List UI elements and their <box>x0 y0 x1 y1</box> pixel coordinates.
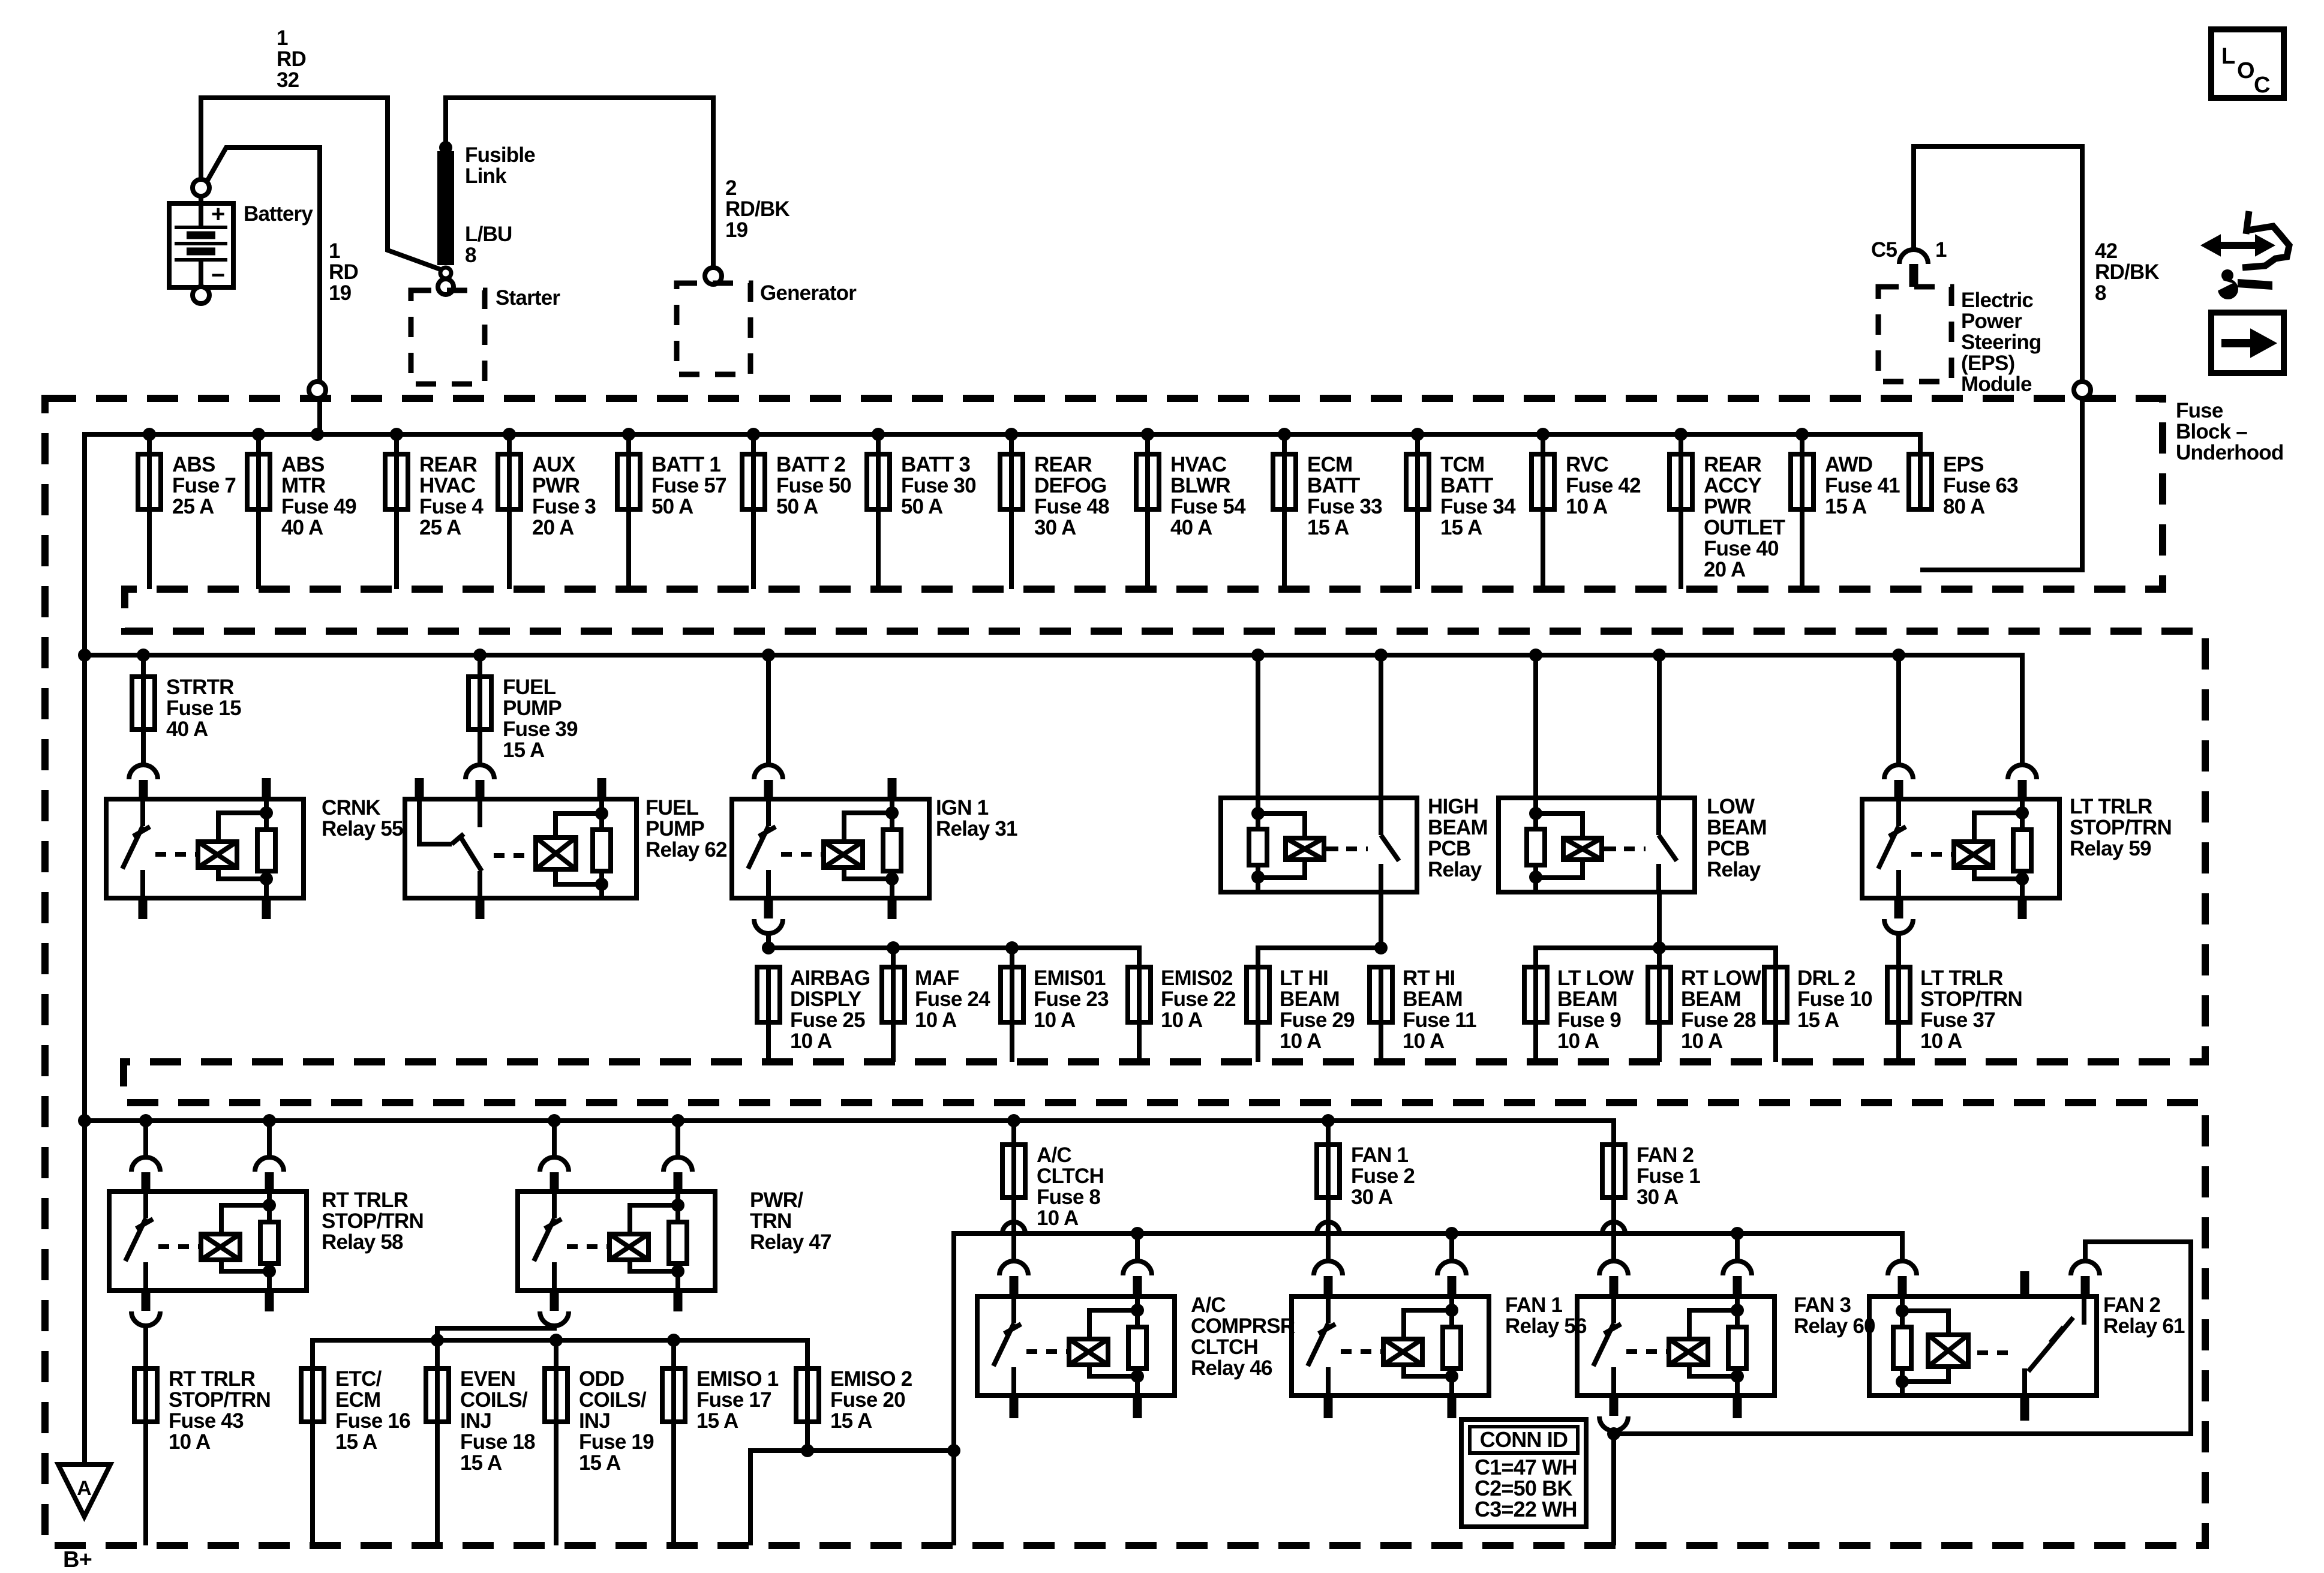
svg-text:RD/BK: RD/BK <box>2095 260 2159 284</box>
svg-text:Fuse 37: Fuse 37 <box>1920 1008 1995 1032</box>
svg-text:C3=22 WH: C3=22 WH <box>1475 1497 1577 1521</box>
svg-text:COILS/: COILS/ <box>460 1388 528 1412</box>
svg-text:Fuse 23: Fuse 23 <box>1034 987 1109 1011</box>
svg-text:42: 42 <box>2095 239 2118 263</box>
svg-text:30 A: 30 A <box>1351 1185 1393 1209</box>
svg-text:40 A: 40 A <box>166 718 208 741</box>
svg-text:FUEL: FUEL <box>503 676 556 699</box>
wire IGN1 output feed bus <box>768 948 1139 967</box>
svg-text:FAN 3: FAN 3 <box>1794 1293 1851 1317</box>
svg-text:RD/BK: RD/BK <box>725 197 789 221</box>
svg-text:10 A: 10 A <box>1161 1008 1203 1032</box>
wire FAN2 fuse to relay 60 <box>1611 1197 1616 1261</box>
fuse EMISO 2 Fuse 20 <box>805 1368 810 1422</box>
svg-text:LT TRLR: LT TRLR <box>2070 795 2152 818</box>
svg-text:STOP/TRN: STOP/TRN <box>1920 987 2022 1011</box>
svg-text:10 A: 10 A <box>169 1430 211 1454</box>
svg-text:40 A: 40 A <box>281 516 323 539</box>
fuse EVEN COILS/ INJ Fuse 18 <box>435 1368 440 1422</box>
svg-text:Electric: Electric <box>1961 289 2033 312</box>
svg-text:25 A: 25 A <box>172 495 214 518</box>
svg-text:Fuse 3: Fuse 3 <box>532 495 596 518</box>
svg-text:RT LOW: RT LOW <box>1681 966 1761 990</box>
fuse ETC/ ECM Fuse 16 <box>310 1368 315 1422</box>
junction feed 1RD19 on row-1 bus <box>311 428 324 441</box>
crossover hops on coil bus <box>1002 1222 1025 1233</box>
svg-text:A/C: A/C <box>1191 1293 1226 1317</box>
junction on row-3 bus x=243 <box>139 1114 152 1127</box>
svg-text:Fuse 22: Fuse 22 <box>1161 987 1236 1011</box>
wire FAN1 fuse to relay 56 <box>1326 1197 1331 1261</box>
relay RT TRLR STOP/TRN Relay 58 <box>143 1121 148 1158</box>
svg-text:20 A: 20 A <box>532 516 574 539</box>
junction on row-3 bus x=924 <box>548 1114 561 1127</box>
svg-text:Fuse 43: Fuse 43 <box>169 1409 244 1433</box>
svg-text:15 A: 15 A <box>335 1430 377 1454</box>
svg-text:Fuse 9: Fuse 9 <box>1557 1008 1621 1032</box>
svg-text:Fuse 1: Fuse 1 <box>1637 1164 1700 1188</box>
junction on row-2 bus x=3165 <box>1892 649 1905 662</box>
starter component dashed box <box>411 290 485 384</box>
svg-text:BATT 1: BATT 1 <box>651 453 720 476</box>
svg-text:20 A: 20 A <box>1704 558 1746 581</box>
junction on row-2 bus x=1281 <box>762 649 775 662</box>
wire LOW BEAM output feed <box>1536 948 1776 967</box>
svg-text:Power: Power <box>1961 310 2022 333</box>
wire row-3 lower fuse bus <box>313 1340 807 1368</box>
svg-text:15 A: 15 A <box>696 1409 738 1433</box>
svg-text:Fuse 50: Fuse 50 <box>776 474 851 497</box>
svg-text:Fuse 20: Fuse 20 <box>830 1388 905 1412</box>
svg-text:Relay 46: Relay 46 <box>1191 1356 1272 1380</box>
wire coil bus to relay 60 <box>1735 1233 1740 1261</box>
LOC reference box <box>2211 29 2284 98</box>
svg-text:Generator: Generator <box>760 281 857 305</box>
svg-text:AUX: AUX <box>532 453 576 476</box>
svg-text:10 A: 10 A <box>1920 1029 1962 1053</box>
svg-text:Relay 58: Relay 58 <box>322 1230 403 1254</box>
svg-text:STOP/TRN: STOP/TRN <box>169 1388 271 1412</box>
svg-text:Relay 60: Relay 60 <box>1794 1314 1875 1338</box>
svg-text:40 A: 40 A <box>1170 516 1212 539</box>
wire relay 60 output to relay 61 switch feed <box>1614 1242 2191 1434</box>
svg-text:EMISO 2: EMISO 2 <box>830 1367 912 1391</box>
svg-text:PUMP: PUMP <box>503 697 562 720</box>
svg-text:RT HI: RT HI <box>1403 966 1455 990</box>
fuse ODD COILS/ INJ Fuse 19 <box>554 1368 559 1422</box>
fuse LT HI BEAM Fuse 29 <box>1256 967 1260 1022</box>
junction on row-2 bus x=2302 <box>1374 649 1388 662</box>
wire 1 RD 32 battery to starter <box>201 98 440 269</box>
svg-text:REAR: REAR <box>419 453 477 476</box>
svg-text:INJ: INJ <box>460 1409 491 1433</box>
relay FAN 1 Relay 56 <box>1314 1261 1343 1275</box>
svg-text:Fuse 2: Fuse 2 <box>1351 1164 1415 1188</box>
svg-text:10 A: 10 A <box>1681 1029 1723 1053</box>
fuse ABS Fuse 7 <box>143 428 156 441</box>
svg-text:30 A: 30 A <box>1034 516 1076 539</box>
svg-text:Fuse 15: Fuse 15 <box>166 697 241 720</box>
svg-text:25 A: 25 A <box>419 516 461 539</box>
svg-text:Fuse 24: Fuse 24 <box>915 987 990 1011</box>
svg-text:Steering: Steering <box>1961 331 2041 354</box>
fuse AIRBAG DISPLY Fuse 25 <box>766 967 771 1022</box>
svg-text:Fuse 42: Fuse 42 <box>1566 474 1641 497</box>
svg-text:EPS: EPS <box>1943 453 1984 476</box>
svg-text:Relay 59: Relay 59 <box>2070 837 2151 860</box>
svg-text:CRNK: CRNK <box>322 796 380 819</box>
battery B1 <box>169 203 233 287</box>
svg-text:Fuse 7: Fuse 7 <box>172 474 236 497</box>
relay IGN 1 Relay 31 <box>766 655 771 766</box>
svg-text:15 A: 15 A <box>1440 516 1482 539</box>
svg-text:Fuse 41: Fuse 41 <box>1825 474 1900 497</box>
battery positive terminal <box>193 179 209 196</box>
svg-text:−: − <box>211 262 225 289</box>
svg-text:EMISO 1: EMISO 1 <box>696 1367 779 1391</box>
fuse BATT 1 Fuse 57 <box>622 428 635 441</box>
wire EMISO 2 output junction <box>750 1422 954 1545</box>
fuse AUX PWR Fuse 3 <box>503 428 516 441</box>
svg-text:Relay 31: Relay 31 <box>936 817 1017 840</box>
svg-text:LT HI: LT HI <box>1280 966 1328 990</box>
fuse EPS Fuse 63 <box>1918 454 1923 509</box>
connector C5 cavity <box>1899 250 1928 264</box>
fuse RT HI BEAM Fuse 11 <box>1379 967 1383 1022</box>
svg-text:ABS: ABS <box>281 453 325 476</box>
wire 42 RD/BK 8 EPS module to fuse block <box>1914 146 2082 570</box>
svg-text:CLTCH: CLTCH <box>1037 1164 1104 1188</box>
svg-text:PWR: PWR <box>532 474 580 497</box>
svg-text:C: C <box>2254 73 2270 98</box>
svg-text:A: A <box>77 1477 91 1500</box>
svg-text:EVEN: EVEN <box>460 1367 515 1391</box>
svg-text:HVAC: HVAC <box>1170 453 1227 476</box>
svg-text:Fuse 4: Fuse 4 <box>419 495 484 518</box>
fuse HVAC BLWR Fuse 54 <box>1141 428 1154 441</box>
fuse BATT 3 Fuse 30 <box>872 428 885 441</box>
svg-text:FAN 1: FAN 1 <box>1505 1293 1563 1317</box>
svg-text:PWR: PWR <box>1704 495 1752 518</box>
fuse EMISO 1 Fuse 17 <box>671 1368 676 1422</box>
CONN ID table <box>1461 1419 1586 1527</box>
fuse block underhood dashed outline <box>45 398 2205 1545</box>
starter terminal ring <box>438 279 454 295</box>
svg-text:10 A: 10 A <box>1037 1206 1079 1230</box>
fuse DRL 2 Fuse 10 <box>1773 967 1778 1022</box>
svg-text:Link: Link <box>465 164 507 188</box>
svg-text:DISPLY: DISPLY <box>790 987 861 1011</box>
wire fusible link to generator feed <box>446 98 713 268</box>
svg-text:HVAC: HVAC <box>419 474 476 497</box>
svg-text:FAN 2: FAN 2 <box>2103 1293 2161 1317</box>
wire A/C CLTCH fuse to relay 46 <box>1011 1197 1016 1261</box>
EPS module dashed box <box>1878 287 1951 382</box>
fuse EMIS01 Fuse 23 <box>1010 967 1014 1022</box>
svg-text:Relay 62: Relay 62 <box>645 838 727 861</box>
fuse RT LOW BEAM Fuse 28 <box>1657 967 1662 1022</box>
svg-text:Fuse 29: Fuse 29 <box>1280 1008 1355 1032</box>
svg-text:15 A: 15 A <box>1307 516 1349 539</box>
fuse BATT 2 Fuse 50 <box>747 428 760 441</box>
junction on row-2 bus x=800 <box>473 649 487 662</box>
svg-text:L/BU: L/BU <box>465 223 512 246</box>
wire coil bus to relay 56 <box>1449 1233 1454 1261</box>
relay FAN 3 Relay 60 <box>1599 1261 1628 1275</box>
svg-text:AIRBAG: AIRBAG <box>790 966 870 990</box>
svg-text:A/C: A/C <box>1037 1143 1071 1167</box>
fuse REAR DEFOG Fuse 48 <box>1005 428 1018 441</box>
svg-text:Fusible: Fusible <box>465 143 535 167</box>
svg-text:TRN: TRN <box>750 1209 792 1233</box>
svg-text:10 A: 10 A <box>1566 495 1608 518</box>
svg-text:Module: Module <box>1961 373 2032 396</box>
svg-text:STOP/TRN: STOP/TRN <box>322 1209 424 1233</box>
svg-text:32: 32 <box>277 68 299 92</box>
svg-text:B+: B+ <box>63 1547 92 1572</box>
wire 1 RD 19 battery to fuse block <box>206 148 320 434</box>
svg-text:Fuse 16: Fuse 16 <box>335 1409 410 1433</box>
wire B+ rail and row-1 bus <box>85 434 1920 1464</box>
svg-text:Starter: Starter <box>496 286 560 310</box>
svg-text:IGN 1: IGN 1 <box>936 796 989 819</box>
svg-text:OUTLET: OUTLET <box>1704 516 1785 539</box>
svg-text:Fuse 18: Fuse 18 <box>460 1430 535 1454</box>
svg-text:15 A: 15 A <box>1825 495 1867 518</box>
junction on row-2 bus x=239 <box>137 649 150 662</box>
svg-text:DRL 2: DRL 2 <box>1797 966 1855 990</box>
svg-text:Fuse 11: Fuse 11 <box>1403 1008 1476 1032</box>
svg-text:BEAM: BEAM <box>1707 816 1767 839</box>
svg-text:MTR: MTR <box>281 474 326 497</box>
svg-text:Fuse 10: Fuse 10 <box>1797 987 1872 1011</box>
svg-text:REAR: REAR <box>1704 453 1761 476</box>
svg-text:8: 8 <box>465 244 476 267</box>
svg-text:AWD: AWD <box>1825 453 1872 476</box>
row-3 bus wire <box>85 1121 1614 1145</box>
junction on row-2 bus x=2097 <box>1251 649 1265 662</box>
svg-text:TCM: TCM <box>1440 453 1484 476</box>
fuse LT LOW BEAM Fuse 9 <box>1533 967 1538 1022</box>
svg-text:1: 1 <box>329 239 340 263</box>
svg-text:10 A: 10 A <box>915 1008 957 1032</box>
fusible link lower terminal <box>440 268 451 278</box>
svg-text:O: O <box>2237 58 2254 83</box>
relay LT TRLR STOP/TRN Relay 59 <box>1896 655 1901 766</box>
svg-text:FAN 2: FAN 2 <box>1637 1143 1694 1167</box>
svg-text:BEAM: BEAM <box>1280 987 1340 1011</box>
svg-text:EMIS01: EMIS01 <box>1034 966 1106 990</box>
fuse ABS MTR Fuse 49 <box>252 428 265 441</box>
svg-text:Fuse 17: Fuse 17 <box>696 1388 771 1412</box>
svg-text:50 A: 50 A <box>776 495 818 518</box>
wire coil bus to relay 46 <box>1135 1233 1140 1261</box>
svg-text:10 A: 10 A <box>1403 1029 1445 1053</box>
svg-text:HIGH: HIGH <box>1428 795 1478 818</box>
svg-text:L: L <box>2221 44 2235 69</box>
svg-text:Fuse 28: Fuse 28 <box>1681 1008 1756 1032</box>
svg-text:50 A: 50 A <box>901 495 943 518</box>
svg-text:ETC/: ETC/ <box>335 1367 382 1391</box>
svg-text:STOP/TRN: STOP/TRN <box>2070 816 2172 839</box>
generator terminal ring <box>705 268 722 284</box>
svg-text:RD: RD <box>277 47 306 71</box>
connector ring on fuse block border left <box>309 382 326 398</box>
fuse LT TRLR STOP/TRN Fuse 37 <box>1896 967 1901 1022</box>
svg-text:15 A: 15 A <box>579 1451 621 1475</box>
svg-text:80 A: 80 A <box>1943 495 1985 518</box>
relay HIGH BEAM PCB Relay <box>1256 655 1260 798</box>
svg-text:LT LOW: LT LOW <box>1557 966 1634 990</box>
svg-text:Fuse 40: Fuse 40 <box>1704 537 1779 560</box>
svg-text:10 A: 10 A <box>1280 1029 1322 1053</box>
fuse A/C CLTCH Fuse 8 <box>1011 1121 1016 1145</box>
battery negative terminal <box>193 287 209 304</box>
svg-text:BEAM: BEAM <box>1403 987 1463 1011</box>
svg-text:Fuse: Fuse <box>2176 399 2223 422</box>
svg-text:Relay 47: Relay 47 <box>750 1230 831 1254</box>
svg-text:Fuse 57: Fuse 57 <box>651 474 726 497</box>
svg-text:RT TRLR: RT TRLR <box>322 1188 409 1212</box>
svg-text:CONN ID: CONN ID <box>1480 1427 1568 1452</box>
junction on row-2 bus x=2560 <box>1529 649 1542 662</box>
svg-text:BATT: BATT <box>1307 474 1360 497</box>
svg-text:BATT 3: BATT 3 <box>901 453 970 476</box>
svg-text:RVC: RVC <box>1566 453 1608 476</box>
connector ring on fuse block border right <box>2074 382 2091 398</box>
svg-text:Fuse 54: Fuse 54 <box>1170 495 1246 518</box>
junction on row-2 bus x=2766 <box>1653 649 1666 662</box>
svg-text:ECM: ECM <box>1307 453 1352 476</box>
svg-text:RD: RD <box>329 260 358 284</box>
row-2 bus wire <box>85 655 2022 765</box>
relay PWR/TRN Relay 47 <box>552 1121 557 1158</box>
fuse REAR ACCY PWR OUTLET Fuse 40 <box>1674 428 1688 441</box>
fuse RVC Fuse 42 <box>1536 428 1550 441</box>
relay CRNK Relay 55 <box>129 765 158 779</box>
relay FAN 2 Relay 61 <box>1888 1261 1917 1275</box>
fuse EMIS02 Fuse 22 <box>1137 967 1142 1022</box>
svg-text:Relay 56: Relay 56 <box>1505 1314 1587 1338</box>
junction on row-3 bus x=2214 <box>1322 1114 1335 1127</box>
power source symbol A B+ <box>58 1464 110 1517</box>
svg-text:BATT 2: BATT 2 <box>776 453 845 476</box>
svg-text:BEAM: BEAM <box>1681 987 1741 1011</box>
svg-text:Relay 55: Relay 55 <box>322 817 403 840</box>
svg-text:EMIS02: EMIS02 <box>1161 966 1233 990</box>
relay A/C COMPRSR CLTCH Relay 46 <box>999 1261 1028 1275</box>
svg-text:Fuse 49: Fuse 49 <box>281 495 356 518</box>
svg-text:Relay: Relay <box>1428 858 1482 881</box>
svg-text:BATT: BATT <box>1440 474 1493 497</box>
svg-text:BEAM: BEAM <box>1428 816 1488 839</box>
svg-text:ECM: ECM <box>335 1388 380 1412</box>
svg-text:15 A: 15 A <box>460 1451 502 1475</box>
svg-text:Fuse 63: Fuse 63 <box>1943 474 2018 497</box>
svg-text:FUEL: FUEL <box>645 796 699 819</box>
svg-text:BEAM: BEAM <box>1557 987 1617 1011</box>
svg-text:Relay 61: Relay 61 <box>2103 1314 2185 1338</box>
svg-text:10 A: 10 A <box>1034 1008 1076 1032</box>
svg-text:Fuse 19: Fuse 19 <box>579 1430 654 1454</box>
svg-text:REAR: REAR <box>1034 453 1092 476</box>
svg-text:LOW: LOW <box>1707 795 1755 818</box>
svg-text:LT TRLR: LT TRLR <box>1920 966 2003 990</box>
fuse RT TRLR STOP/TRN Fuse 43 <box>143 1368 148 1422</box>
svg-text:PWR/: PWR/ <box>750 1188 803 1212</box>
svg-text:PCB: PCB <box>1707 837 1750 860</box>
svg-text:Relay: Relay <box>1707 858 1761 881</box>
svg-text:8: 8 <box>2095 281 2106 305</box>
svg-text:PCB: PCB <box>1428 837 1471 860</box>
svg-text:Fuse 34: Fuse 34 <box>1440 495 1516 518</box>
svg-text:Block –: Block – <box>2176 420 2247 443</box>
svg-text:15 A: 15 A <box>1797 1008 1839 1032</box>
fuse FAN 2 Fuse 1 <box>1611 1145 1616 1197</box>
svg-text:30 A: 30 A <box>1637 1185 1679 1209</box>
svg-text:Fuse 8: Fuse 8 <box>1037 1185 1100 1209</box>
diagnostic jump icon with wrench <box>2246 211 2249 234</box>
svg-text:INJ: INJ <box>579 1409 610 1433</box>
svg-text:+: + <box>211 201 225 227</box>
svg-text:1: 1 <box>1935 238 1947 262</box>
svg-text:DEFOG: DEFOG <box>1034 474 1106 497</box>
junction on row-3 bus x=1130 <box>671 1114 684 1127</box>
svg-text:(EPS): (EPS) <box>1961 352 2014 375</box>
fuse AWD Fuse 41 <box>1795 428 1809 441</box>
svg-text:ODD: ODD <box>579 1367 624 1391</box>
svg-text:15 A: 15 A <box>503 739 545 762</box>
svg-text:2: 2 <box>725 176 737 200</box>
svg-text:10 A: 10 A <box>1557 1029 1599 1053</box>
svg-text:CLTCH: CLTCH <box>1191 1335 1258 1359</box>
svg-text:Fuse 39: Fuse 39 <box>503 718 578 741</box>
relay LOW BEAM PCB Relay <box>1533 655 1538 798</box>
fuse STRTR Fuse 15 <box>141 655 146 677</box>
junction on row-3 bus x=1690 <box>1007 1114 1020 1127</box>
fuse ECM BATT Fuse 33 <box>1278 428 1291 441</box>
fuse MAF Fuse 24 <box>891 967 896 1022</box>
relay coil supply bus row-3 <box>954 1233 1902 1451</box>
svg-text:Fuse 33: Fuse 33 <box>1307 495 1382 518</box>
svg-text:MAF: MAF <box>915 966 959 990</box>
fuse REAR HVAC Fuse 4 <box>390 428 403 441</box>
junction on row-3 bus x=449 <box>263 1114 276 1127</box>
svg-text:FAN 1: FAN 1 <box>1351 1143 1409 1167</box>
relay FUEL PUMP Relay 62 <box>466 765 494 779</box>
fuse FAN 1 Fuse 2 <box>1326 1121 1331 1145</box>
svg-text:Fuse 30: Fuse 30 <box>901 474 976 497</box>
svg-text:Underhood: Underhood <box>2176 441 2283 464</box>
svg-text:10 A: 10 A <box>790 1029 832 1053</box>
svg-text:PUMP: PUMP <box>645 817 704 840</box>
fuse FUEL PUMP Fuse 39 <box>478 655 482 677</box>
svg-text:15 A: 15 A <box>830 1409 872 1433</box>
svg-text:ABS: ABS <box>172 453 215 476</box>
svg-text:COILS/: COILS/ <box>579 1388 647 1412</box>
svg-text:C5: C5 <box>1871 238 1897 262</box>
svg-text:RT TRLR: RT TRLR <box>169 1367 256 1391</box>
junction on row-3 bus x=141 <box>78 1114 91 1127</box>
svg-text:ACCY: ACCY <box>1704 474 1761 497</box>
forward arrow box icon <box>2211 313 2284 373</box>
fusible link <box>437 151 454 265</box>
svg-text:Fuse 48: Fuse 48 <box>1034 495 1109 518</box>
generator component dashed box <box>677 283 750 374</box>
fuse TCM BATT Fuse 34 <box>1411 428 1424 441</box>
svg-text:19: 19 <box>329 281 352 305</box>
svg-text:BLWR: BLWR <box>1170 474 1230 497</box>
